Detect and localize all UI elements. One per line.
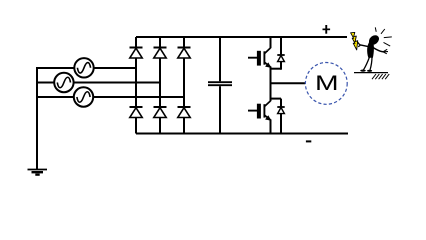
- AC source V2: [54, 73, 73, 92]
- wire inverter midpoint: [270, 69, 272, 99]
- wire emitter-diode connector upper: [270, 68, 282, 70]
- wire phase A: [36, 67, 136, 69]
- platform hatching: [372, 74, 389, 79]
- wire phase B: [37, 82, 160, 84]
- AC source V3: [74, 87, 93, 106]
- wire motor feed: [271, 82, 306, 84]
- label - (negative DC rail): [306, 140, 311, 142]
- capacitor C1: [208, 37, 232, 134]
- wire collector-diode connector lower: [270, 98, 282, 100]
- wire bottom DC bus: [136, 133, 348, 135]
- wire rectifier leg 3: [183, 37, 185, 134]
- diode D5: [154, 107, 167, 118]
- wire rectifier leg 2: [159, 37, 161, 134]
- diode D7 (freewheel upper): [277, 37, 284, 70]
- ground: [28, 170, 48, 175]
- figure left arm holding bolt: [358, 42, 370, 47]
- diode D3: [178, 48, 191, 59]
- lightning bolt: [351, 32, 358, 50]
- platform line: [354, 72, 388, 74]
- label + (positive DC rail): [323, 25, 331, 34]
- AC source V1: [74, 58, 93, 77]
- diode D2: [154, 48, 167, 59]
- diode D4: [130, 107, 143, 118]
- wire top DC bus: [136, 36, 347, 38]
- figure body: [367, 41, 374, 58]
- wire rectifier leg 1: [135, 37, 137, 134]
- wire left vertical bus: [36, 67, 38, 170]
- diode D1: [130, 48, 143, 59]
- figure legs: [360, 57, 372, 72]
- shout lines around head: [375, 27, 392, 46]
- svg-text:M: M: [315, 72, 339, 96]
- figure right arm with open hand: [373, 48, 388, 54]
- diode D6: [178, 107, 191, 118]
- motor M1: [305, 63, 347, 105]
- diode D8 (freewheel lower): [277, 99, 284, 134]
- IGBT Q1: [248, 37, 271, 70]
- IGBT Q2: [248, 99, 271, 134]
- wire phase C: [37, 96, 184, 98]
- clipart figure with lightning bolt: [351, 27, 392, 79]
- figure head: [367, 33, 381, 47]
